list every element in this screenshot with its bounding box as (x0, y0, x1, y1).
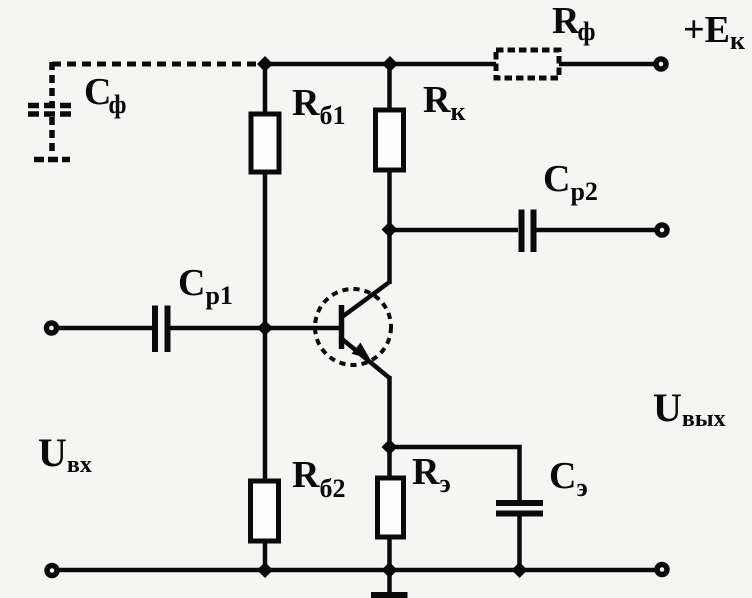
wire: input terminal to Cр1 (58, 326, 152, 331)
resistor R4 (Rф) dashed (496, 50, 559, 78)
transistor VT1 body circle (315, 289, 391, 365)
wire: collector vertical to transistor (387, 230, 392, 285)
terminal bottom right (657, 565, 667, 575)
node A (top of Rб1) (257, 56, 273, 72)
wire: Rк to collector node (387, 170, 392, 231)
node rail-Rб2 (257, 562, 273, 578)
transistor VT1 base bar (339, 305, 345, 349)
wire: top rail (263, 62, 498, 67)
wire: emitter to emitter node (387, 376, 392, 449)
terminal bottom left (47, 566, 57, 576)
transistor VT1 emitter arrow (352, 343, 371, 360)
wire: emitter node to Cэ branch (390, 447, 520, 502)
node rail-Cэ (512, 562, 528, 578)
node rail-Rэ (382, 562, 398, 578)
terminal output top (657, 225, 667, 235)
capacitor C4 (Cф) dashed branch (28, 62, 74, 160)
transistor VT1 collector lead (342, 282, 390, 317)
wire: collector node to Cр2 (390, 228, 519, 233)
wire: Rб1 to base node (263, 172, 268, 330)
ground (371, 570, 408, 595)
node base (257, 320, 273, 336)
resistor R5 (Rэ) (378, 478, 404, 537)
wire: rail to +Ek terminal (559, 62, 655, 67)
resistor R2 (Rк) (376, 110, 404, 170)
capacitor C3 (Cэ) (496, 503, 543, 514)
wire: Cр2 to output terminal (537, 228, 657, 233)
wire: node A to Rб1 (263, 64, 268, 115)
capacitor C2 (Cр2) (522, 210, 534, 253)
wire: node B to Rк (387, 64, 392, 111)
capacitor C1 (Cр1) (155, 306, 168, 353)
wire: Cэ to bottom rail (517, 514, 522, 570)
resistor R3 (Rб2) (251, 481, 279, 541)
wire: Cр1 to base node (171, 326, 266, 331)
terminal +Ek (656, 59, 666, 69)
wire: base node to Rб2 (263, 328, 268, 482)
node B (top of Rк) (382, 56, 398, 72)
node collector (382, 222, 398, 238)
wire: Rб2 to bottom rail (263, 541, 268, 570)
terminal input (47, 323, 57, 333)
resistor R1 (Rб1) (251, 114, 279, 172)
wire: bottom rail (58, 568, 656, 573)
wire: emitter node to Rэ (387, 447, 392, 479)
wire: Rэ to bottom rail (387, 537, 392, 570)
wire: dashed feed from Cф to top rail (52, 62, 263, 67)
wire: base wire from node to transistor (263, 326, 340, 331)
transistor VT1 emitter lead (342, 339, 390, 378)
node emitter (382, 439, 398, 455)
